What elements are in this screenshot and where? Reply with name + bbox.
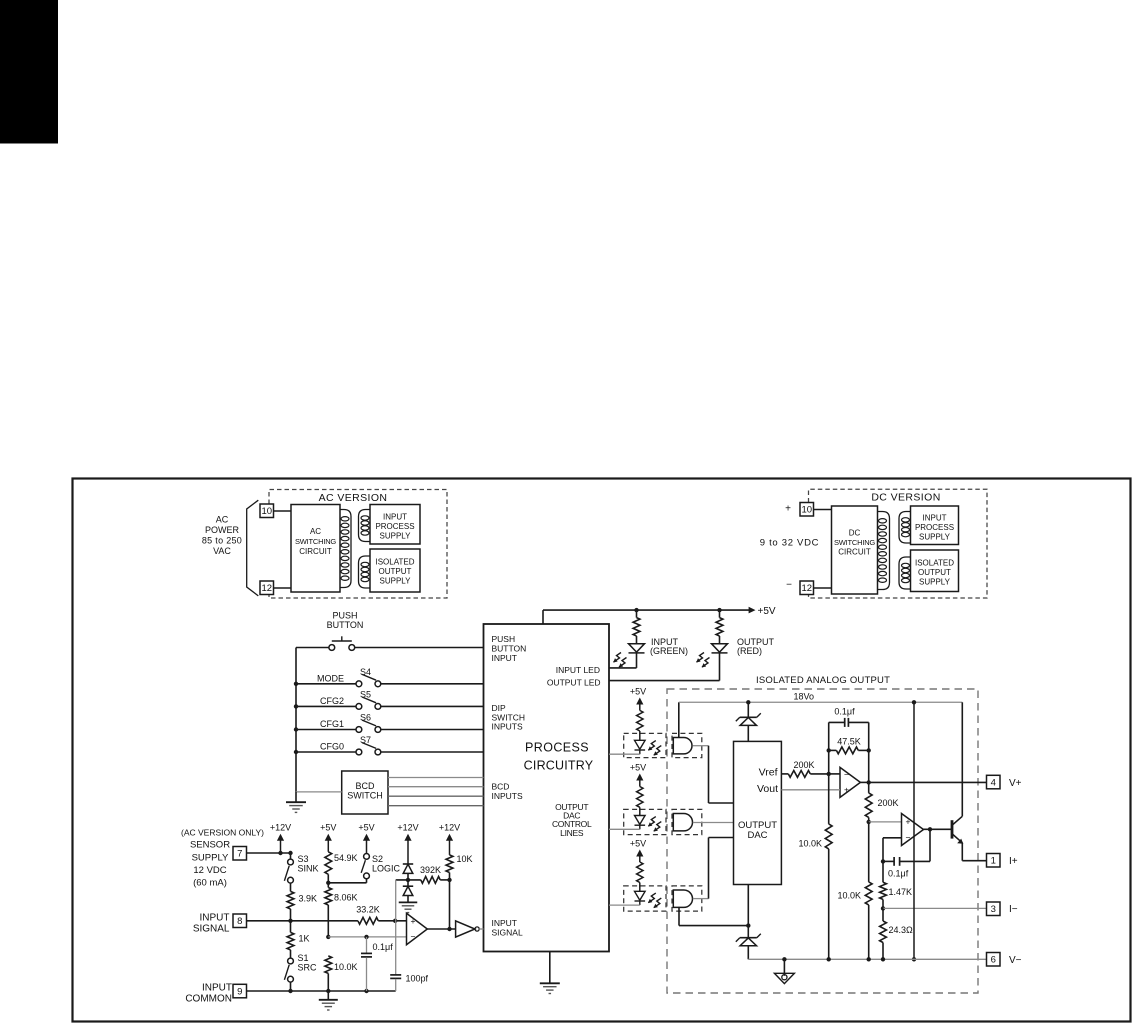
svg-text:POWER: POWER: [205, 525, 240, 535]
svg-text:INPUT LED: INPUT LED: [556, 665, 600, 675]
pin label output led: [547, 678, 601, 688]
svg-text:24.3Ω: 24.3Ω: [889, 925, 914, 935]
svg-text:10.0K: 10.0K: [837, 891, 861, 901]
node U2 output: [867, 780, 871, 784]
svg-text:1K: 1K: [299, 934, 310, 944]
node minus line left: [326, 935, 330, 939]
resistor opto row 1: [637, 710, 643, 740]
node common iso-ground: [782, 957, 786, 961]
node 47.5K right: [867, 748, 871, 752]
wire U2 minus chain down: [828, 774, 830, 824]
label 392K: [420, 865, 441, 875]
wire feedback left leg: [828, 722, 830, 774]
svg-text:200K: 200K: [793, 760, 814, 770]
ground input common: [319, 991, 338, 1010]
label 10.0K input: [334, 962, 358, 972]
resistor 10K pullup: [446, 855, 453, 880]
label I+: [1009, 856, 1018, 867]
AC switching circuit block: [291, 505, 340, 593]
pin label dip switch inputs: [492, 703, 526, 732]
wire U2 output to terminal 4: [869, 781, 987, 783]
svg-text:+5V: +5V: [358, 823, 374, 833]
+12V supply clamp: [397, 823, 418, 865]
switch S2: [361, 854, 369, 879]
optocoupler LED dashed box row 2: [624, 809, 666, 834]
resistor 3.9K: [287, 883, 294, 921]
label ac version only: [181, 828, 264, 838]
svg-text:9: 9: [237, 986, 242, 997]
svg-text:0.1μf: 0.1μf: [834, 707, 855, 717]
svg-text:AC: AC: [216, 515, 229, 525]
resistor opto row 3: [637, 862, 643, 891]
terminal 9: [233, 984, 247, 998]
LED output (red): [712, 644, 728, 653]
switch S6: [356, 720, 381, 732]
svg-text:INPUTS: INPUTS: [492, 791, 524, 801]
wire divider to U3 plus: [869, 821, 902, 823]
label input common: [185, 983, 232, 1005]
svg-text:DC VERSION: DC VERSION: [871, 492, 940, 504]
+5V supply opto row 2: [630, 763, 646, 787]
wire terminal12 to AC switching circuit: [274, 587, 292, 589]
isolated output supply block (AC): [370, 549, 420, 592]
resistor 1.47K: [880, 861, 887, 908]
node common 10.0K left: [827, 957, 831, 961]
output DAC block: [734, 741, 782, 884]
node common 24.3ohm: [881, 957, 885, 961]
svg-text:4: 4: [991, 777, 996, 788]
svg-text:Vref: Vref: [759, 767, 778, 779]
op-amp U1: [407, 913, 428, 944]
terminal 3: [987, 902, 1001, 916]
svg-text:8.06K: 8.06K: [334, 893, 358, 903]
node plus input feedback: [393, 919, 397, 923]
svg-text:SWITCH: SWITCH: [347, 791, 383, 801]
resistor output LED: [716, 610, 723, 644]
node +5V to output LED: [717, 608, 721, 612]
light arrows opto row 2: [648, 817, 661, 832]
label 0.1uf input: [373, 942, 394, 952]
node U3 minus cap: [881, 859, 885, 863]
label CFG2: [320, 696, 344, 706]
svg-text:INPUT: INPUT: [202, 983, 232, 994]
BCD output lines: [388, 778, 484, 806]
label I-: [1009, 904, 1018, 915]
capacitor 0.1uf input: [361, 937, 372, 991]
svg-text:INPUT: INPUT: [492, 653, 518, 663]
label V-: [1009, 955, 1022, 966]
node 47.5K left: [827, 748, 831, 752]
svg-text:7: 7: [237, 849, 242, 860]
wire U3 output to cap: [929, 829, 931, 861]
svg-text:DC: DC: [849, 529, 861, 538]
svg-text:−: −: [906, 832, 911, 842]
wire MODE line: [294, 682, 484, 686]
resistor 200K input: [788, 771, 828, 778]
detector row2 output wire: [693, 822, 734, 824]
svg-text:BUTTON: BUTTON: [327, 620, 364, 630]
wire Vref to 200K: [781, 773, 788, 775]
push button label: [327, 611, 364, 631]
wire feedback right leg: [868, 722, 870, 782]
svg-text:ISOLATED: ISOLATED: [376, 558, 415, 567]
label S5: [360, 690, 371, 700]
label Vref: [759, 767, 778, 779]
svg-text:BCD: BCD: [492, 782, 510, 792]
label MODE: [317, 673, 344, 683]
pin label output dac control lines: [552, 802, 592, 838]
+12V supply sensor: [270, 823, 291, 854]
svg-text:+5V: +5V: [320, 823, 336, 833]
svg-text:INPUT: INPUT: [200, 913, 230, 924]
resistor 54.9K: [325, 852, 332, 883]
BCD switch block: [342, 771, 388, 814]
resistor 10.0K left: [825, 824, 832, 959]
zener Z1: [736, 702, 761, 741]
svg-text:SUPPLY: SUPPLY: [919, 533, 951, 542]
optocoupler detector dashed box row 3: [672, 886, 702, 911]
label S2 LOGIC: [372, 854, 401, 874]
node U3 output branch: [928, 827, 932, 831]
svg-text:0.1μf: 0.1μf: [888, 869, 909, 879]
+5V supply divider: [320, 823, 336, 852]
optocoupler detector dashed box row 2: [672, 809, 702, 834]
svg-text:SUPPLY: SUPPLY: [919, 578, 951, 587]
svg-text:(60 mA): (60 mA): [193, 877, 227, 888]
svg-text:OUTPUT LED: OUTPUT LED: [547, 678, 601, 688]
op-amp U2: [840, 767, 860, 797]
node common divider: [867, 957, 871, 961]
node common 10.0K: [326, 989, 330, 993]
svg-text:SIGNAL: SIGNAL: [193, 924, 230, 935]
transformer T1 secondary coil to input process supply (AC): [359, 510, 371, 542]
transformer T1 primary coil (AC): [340, 510, 351, 588]
svg-text:AC VERSION: AC VERSION: [319, 492, 388, 504]
wire 18Vo feed to detector row1: [678, 702, 680, 737]
light arrows input LED: [613, 653, 626, 668]
resistor 8.06K: [325, 883, 332, 937]
wire terminal10 to DC switching circuit: [814, 509, 832, 511]
svg-text:SUPPLY: SUPPLY: [380, 577, 412, 586]
resistor 10.0K input: [325, 956, 332, 991]
wire terminal10 to AC switching circuit: [274, 510, 292, 512]
node minus 0.1uf: [364, 935, 368, 939]
svg-text:AC: AC: [310, 527, 321, 536]
wire Vout to U2 plus input: [781, 789, 840, 791]
svg-text:CFG1: CFG1: [320, 719, 344, 729]
wire opto LED row 2 to process box: [609, 825, 640, 830]
svg-text:−: −: [844, 770, 849, 780]
+5V supply logic: [358, 823, 374, 854]
switch S7: [356, 743, 381, 755]
svg-text:VAC: VAC: [213, 546, 231, 556]
wire pullup node to output: [449, 880, 451, 929]
wire to terminal 3: [883, 907, 987, 909]
svg-text:PUSH: PUSH: [492, 634, 516, 644]
wire Q1 collector to 18Vo: [961, 702, 963, 816]
wire S1 to common: [290, 982, 292, 991]
node I- junction: [881, 906, 885, 910]
svg-text:OUTPUT: OUTPUT: [379, 567, 412, 576]
svg-text:INPUT: INPUT: [492, 918, 518, 928]
svg-text:10K: 10K: [457, 854, 473, 864]
capacitor 100pf: [390, 975, 401, 991]
svg-text:SWITCHING: SWITCHING: [295, 537, 336, 546]
pin label bcd inputs: [492, 782, 524, 802]
label 24.3ohm: [889, 925, 914, 935]
svg-text:12: 12: [261, 583, 272, 594]
svg-text:SRC: SRC: [298, 963, 318, 973]
label 1K: [299, 934, 310, 944]
svg-text:3.9K: 3.9K: [299, 894, 318, 904]
switch S5: [356, 697, 381, 709]
label 54.9K: [334, 853, 358, 863]
svg-text:CIRCUIT: CIRCUIT: [838, 548, 871, 557]
svg-text:I+: I+: [1009, 856, 1018, 867]
svg-text:0.1μf: 0.1μf: [373, 942, 394, 952]
label 1.47K: [889, 887, 913, 897]
optocoupler detector row 3: [673, 890, 692, 907]
svg-text:+5V: +5V: [630, 839, 646, 849]
isolated ground symbol: [774, 959, 794, 983]
transistor Q1: [952, 816, 963, 844]
svg-text:V+: V+: [1009, 778, 1022, 789]
svg-text:12: 12: [801, 583, 812, 594]
svg-text:(AC VERSION ONLY): (AC VERSION ONLY): [181, 828, 264, 838]
svg-text:+5V: +5V: [758, 606, 776, 617]
wire process box top to +5V rail: [543, 610, 750, 624]
label input green: [650, 637, 688, 656]
switch S1: [284, 958, 293, 982]
isolated analog output title: [756, 675, 890, 686]
svg-text:Vout: Vout: [757, 783, 778, 795]
pin label input led: [556, 665, 600, 675]
zener Z2: [736, 926, 761, 960]
transformer T2 primary coil (DC): [878, 512, 890, 590]
wire push button line: [296, 647, 484, 649]
node common 0.1uf: [364, 989, 368, 993]
svg-text:−: −: [786, 580, 792, 591]
18Vo rail: [679, 701, 963, 703]
svg-text:INPUT: INPUT: [383, 513, 407, 522]
svg-text:ISOLATED: ISOLATED: [915, 559, 954, 568]
light arrows opto row 3: [648, 893, 661, 908]
wire input signal line: [247, 920, 358, 922]
isolated output supply block (DC): [911, 550, 959, 592]
switch S4: [356, 674, 381, 686]
isolated common rail: [748, 958, 986, 960]
svg-text:SINK: SINK: [298, 863, 319, 873]
node input signal S3 branch: [288, 919, 292, 923]
label V+: [1009, 778, 1022, 789]
schematic border frame: [73, 479, 1131, 1022]
resistor 10.0K divider lower: [865, 882, 872, 959]
svg-text:+: +: [844, 785, 849, 795]
push button switch: [329, 636, 355, 650]
transformer T2 secondary coil to isolated output supply (DC): [899, 557, 911, 589]
terminal 6: [987, 953, 1001, 967]
svg-text:10.0K: 10.0K: [334, 962, 358, 972]
svg-text:54.9K: 54.9K: [334, 853, 358, 863]
node U1 output pullup: [447, 927, 451, 931]
buffer U1b: [456, 921, 480, 937]
wire rail to BCD switch: [296, 791, 342, 793]
switch S3: [284, 859, 293, 883]
light arrows output LED: [696, 653, 709, 668]
label 0.1uf feedback: [834, 707, 855, 717]
+5V supply opto row 1: [630, 687, 646, 711]
diode D1 clamp upper: [403, 864, 413, 880]
svg-text:SUPPLY: SUPPLY: [380, 532, 412, 541]
+5V rail arrow and label: [749, 606, 776, 617]
node clamp junction: [406, 878, 410, 882]
node 18Vo above zener Z1: [746, 700, 750, 704]
wire U3 minus input: [883, 838, 902, 862]
svg-text:S1: S1: [298, 953, 309, 963]
terminal 7: [233, 847, 247, 861]
wire DAC bottom to zener Z2: [747, 885, 749, 926]
wire buffer to process box: [479, 928, 483, 930]
terminal 4: [987, 775, 1001, 789]
node 54.9K junction: [326, 881, 330, 885]
optocoupler detector row 2: [673, 814, 692, 831]
wire clamp node line: [396, 879, 421, 881]
svg-text:PROCESS: PROCESS: [525, 741, 589, 755]
svg-text:392K: 392K: [420, 865, 441, 875]
transformer T2 secondary coil to input process supply (DC): [899, 512, 911, 544]
svg-text:CFG0: CFG0: [320, 742, 344, 752]
svg-text:BCD: BCD: [355, 781, 375, 791]
svg-text:OUTPUT: OUTPUT: [918, 568, 951, 577]
label S7: [360, 735, 371, 745]
label S4: [360, 667, 371, 677]
svg-text:PROCESS: PROCESS: [375, 522, 414, 531]
wire 18Vo to V- rail crossing: [912, 700, 916, 961]
LED input (green): [629, 644, 645, 653]
AC version title: [319, 492, 388, 504]
svg-text:CFG2: CFG2: [320, 696, 344, 706]
isolated analog output dashed boundary: [667, 689, 978, 993]
minus input line: [328, 936, 406, 938]
ground below process circuitry: [540, 952, 560, 994]
optocoupler LED row 3: [635, 891, 646, 901]
feedback vertical line: [395, 880, 397, 975]
+5V supply opto row 3: [630, 839, 646, 863]
resistor input LED: [633, 610, 640, 644]
svg-text:1: 1: [991, 856, 996, 867]
terminal 10 (AC): [260, 504, 274, 518]
svg-text:CIRCUIT: CIRCUIT: [299, 547, 332, 556]
DC supply label: [760, 538, 819, 549]
pin label push button input: [492, 634, 527, 663]
DC switching circuit block: [832, 506, 878, 594]
svg-text:+5V: +5V: [630, 687, 646, 697]
DC version title: [871, 492, 940, 504]
wire opto LED row 3 to process box: [609, 901, 640, 906]
wire CFG0 line: [294, 750, 484, 754]
plus polarity mark: [785, 504, 791, 515]
left common rail: [295, 648, 297, 792]
svg-text:SENSOR: SENSOR: [190, 840, 230, 851]
wire U2 minus input: [829, 773, 840, 775]
svg-text:+: +: [906, 816, 911, 826]
wire opto LED row 1 to process box: [609, 750, 640, 755]
label 10K: [457, 854, 473, 864]
svg-text:8: 8: [237, 916, 242, 927]
light arrows opto row 1: [648, 741, 661, 756]
label CFG0: [320, 742, 344, 752]
svg-text:10.0K: 10.0K: [798, 839, 822, 849]
svg-text:18Vo: 18Vo: [794, 692, 815, 702]
svg-text:9 to 32 VDC: 9 to 32 VDC: [760, 538, 819, 549]
wire terminal 7 to S3: [247, 851, 293, 859]
svg-text:V−: V−: [1009, 955, 1022, 966]
label 33.2K: [356, 905, 380, 915]
input process supply block (AC): [370, 505, 420, 545]
resistor 24.3ohm: [880, 908, 887, 959]
svg-text:I−: I−: [1009, 904, 1018, 915]
wire CFG2 line: [294, 704, 484, 708]
node common S1: [288, 989, 292, 993]
label S3 SINK: [298, 854, 319, 873]
svg-text:6: 6: [991, 955, 996, 966]
label input signal: [193, 913, 230, 935]
svg-text:33.2K: 33.2K: [356, 905, 380, 915]
label 8.06K: [334, 893, 358, 903]
pin label input signal (internal): [492, 918, 523, 938]
svg-text:PROCESS: PROCESS: [915, 523, 954, 532]
wire U3 output: [924, 828, 953, 830]
svg-text:LOGIC: LOGIC: [372, 864, 401, 874]
wire Q1 emitter to terminal 1: [962, 843, 986, 861]
svg-text:COMMON: COMMON: [185, 994, 232, 1005]
optocoupler LED dashed box row 3: [624, 886, 666, 911]
capacitor 0.1uf feedback: [829, 718, 869, 727]
wire divider chain down: [868, 822, 870, 882]
wire terminal12 to DC switching circuit: [814, 587, 832, 589]
terminal 1: [987, 854, 1001, 868]
label 10.0K left: [798, 839, 822, 849]
label 10.0K divider lower: [837, 891, 861, 901]
label S1 SRC: [298, 953, 318, 973]
node divider mid: [867, 820, 871, 824]
svg-text:10: 10: [261, 506, 272, 517]
label output red: [737, 637, 775, 656]
svg-text:+12V: +12V: [439, 823, 460, 833]
wire input common line: [247, 990, 396, 992]
label 18Vo: [794, 692, 815, 702]
svg-text:S2: S2: [372, 854, 383, 864]
svg-text:+: +: [411, 916, 416, 926]
svg-text:−: −: [411, 932, 416, 942]
svg-text:+: +: [785, 504, 791, 515]
DC version dashed enclosure: [809, 489, 988, 598]
label 100pf: [406, 974, 429, 984]
svg-text:3: 3: [991, 904, 996, 915]
svg-text:SIGNAL: SIGNAL: [492, 928, 523, 938]
wire junction to S2: [328, 879, 366, 883]
svg-text:100pf: 100pf: [406, 974, 429, 984]
svg-text:PUSH: PUSH: [332, 611, 357, 621]
node 392K right: [447, 878, 451, 882]
node 200K to op-amp U2 minus: [827, 772, 831, 776]
resistor 200K divider: [865, 782, 872, 822]
process circuitry block: [484, 624, 610, 952]
svg-text:12 VDC: 12 VDC: [193, 865, 226, 876]
label CFG1: [320, 719, 344, 729]
ground left rail: [286, 792, 306, 813]
svg-text:200K: 200K: [878, 798, 899, 808]
